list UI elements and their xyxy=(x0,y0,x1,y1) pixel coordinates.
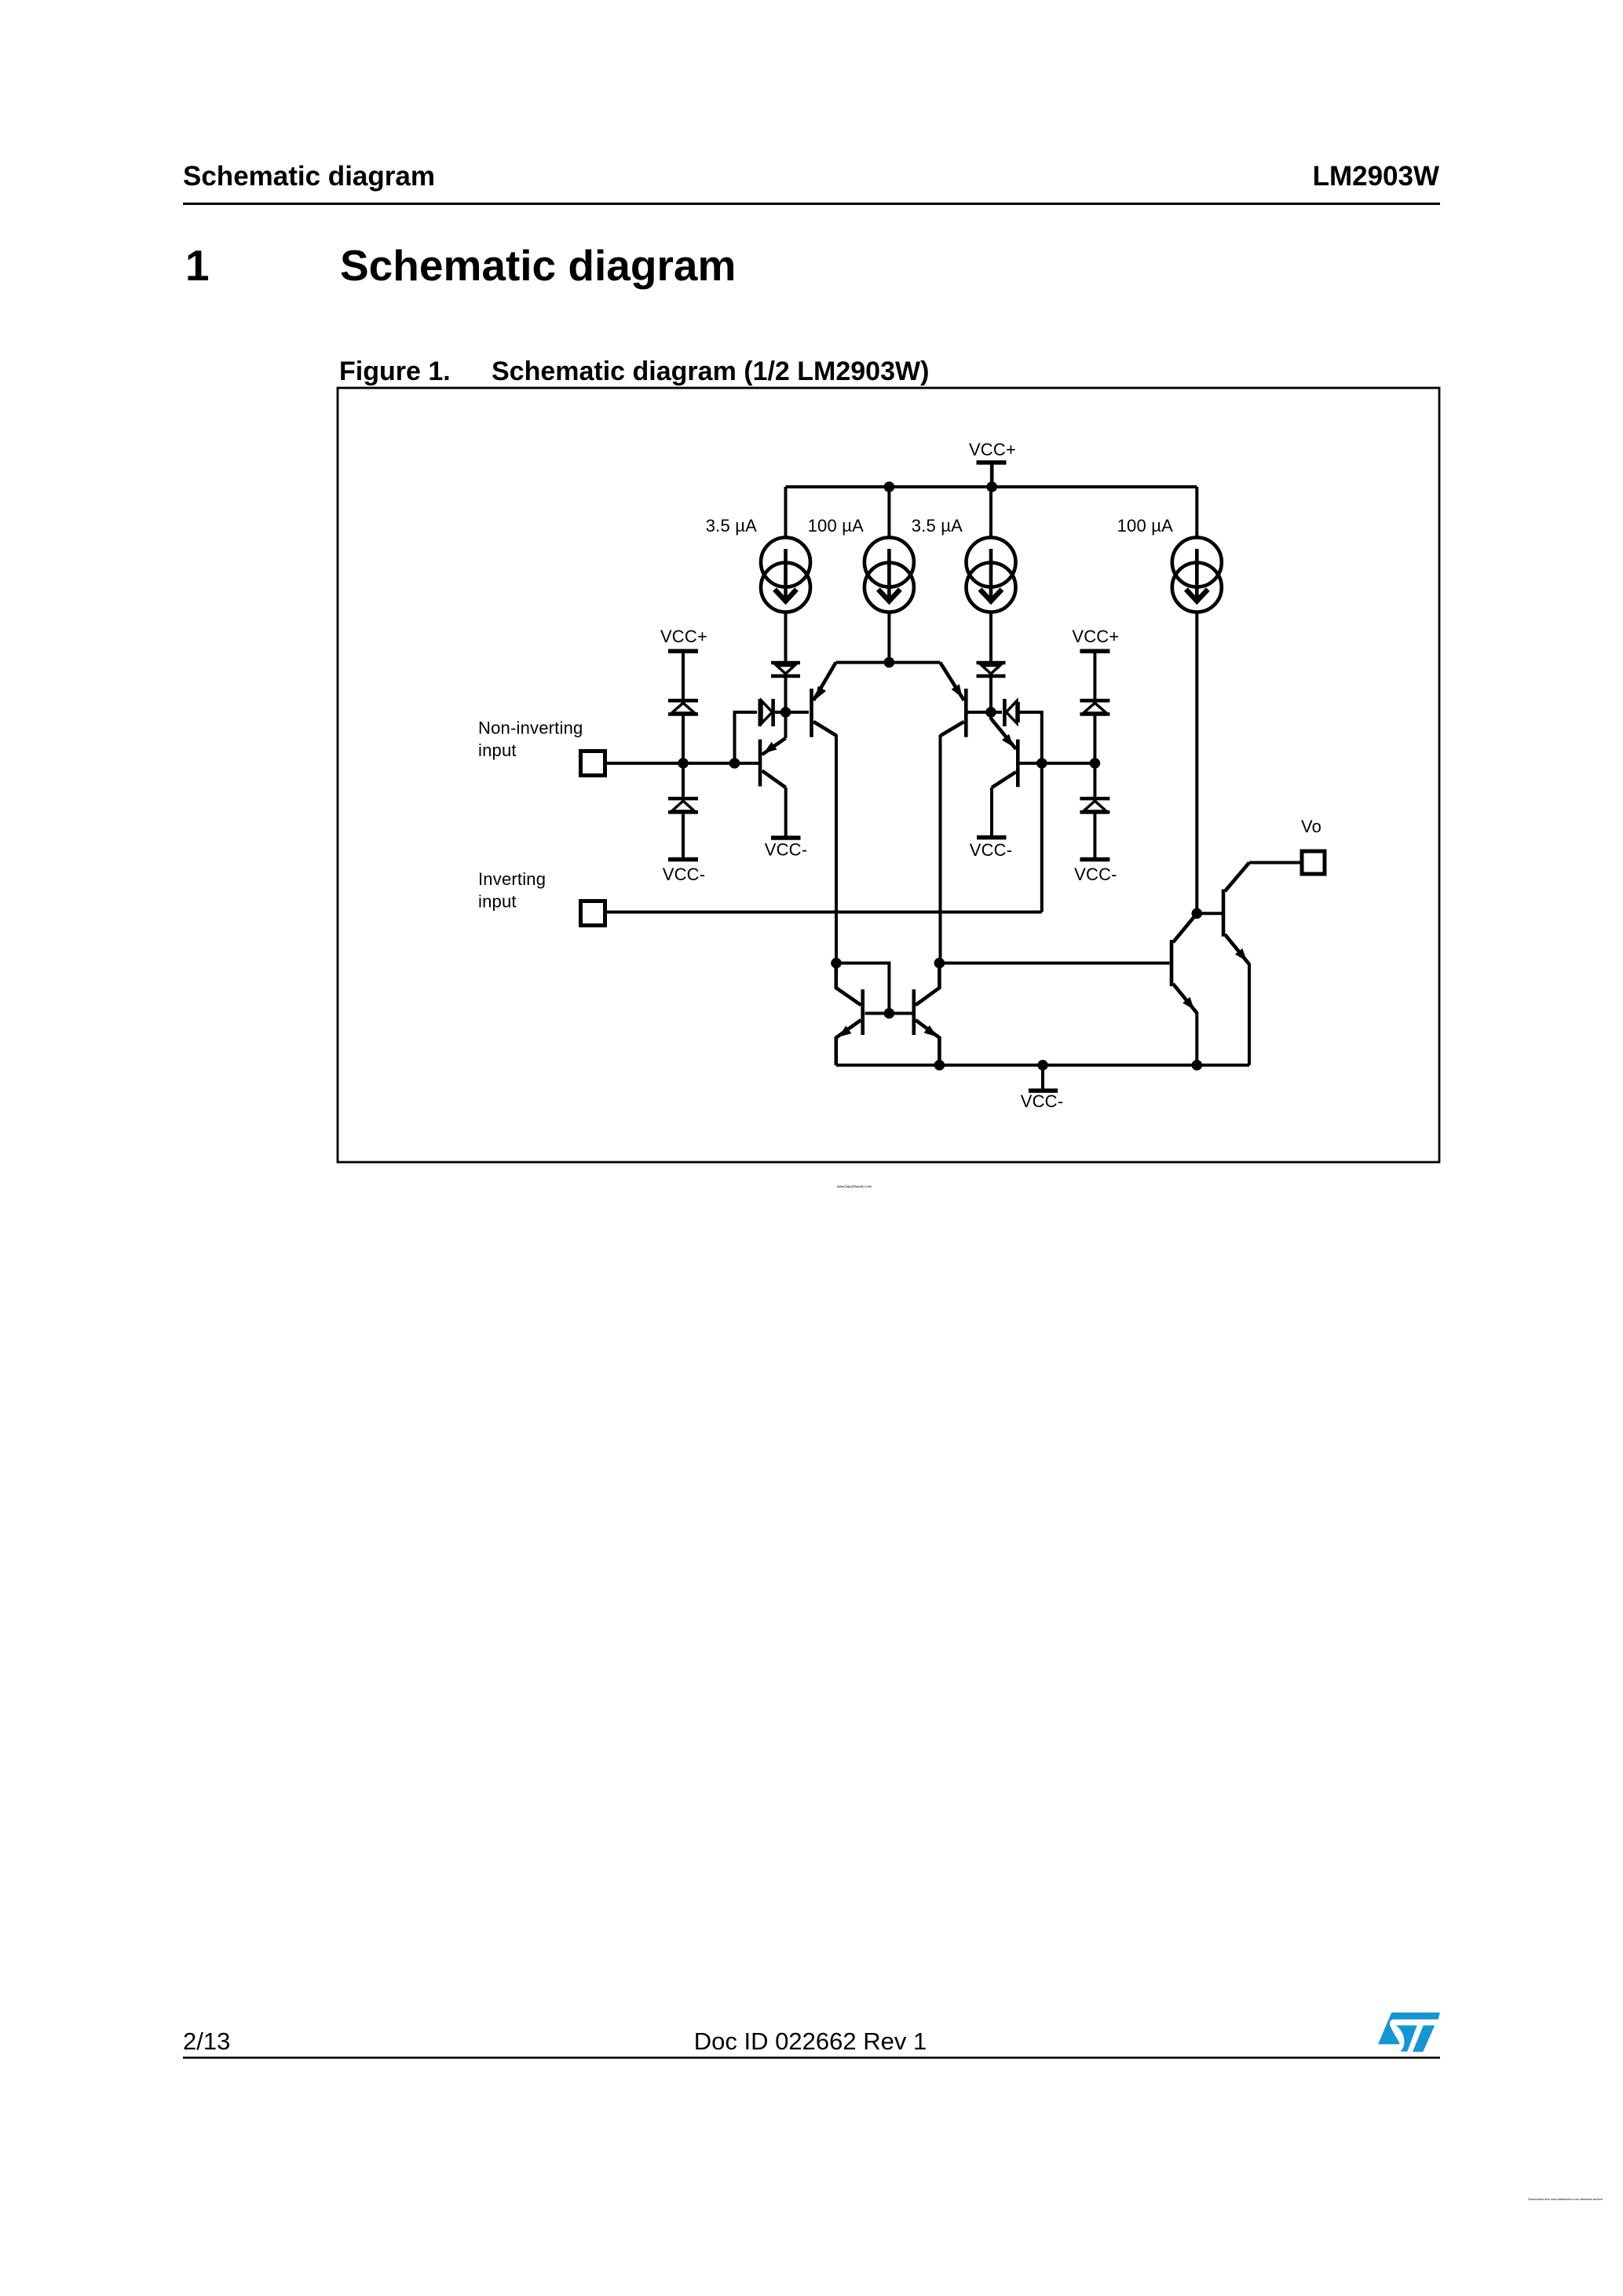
wire inverting branch down xyxy=(1019,712,1042,912)
svg-text:Figure 1.: Figure 1. xyxy=(339,356,451,386)
terminal pad inverting input xyxy=(581,901,605,926)
junction I4 / Q7 collector / Q8 base xyxy=(1192,909,1203,919)
wire Q4 base line xyxy=(1020,762,1095,765)
svg-text:VCC-: VCC- xyxy=(1021,1091,1064,1111)
wire Q3 base to node B xyxy=(967,711,991,714)
ground symbol VCC- xyxy=(1029,1066,1058,1091)
svg-text:Schematic diagram: Schematic diagram xyxy=(340,241,736,290)
wire mirror diode connection xyxy=(836,963,889,1014)
header rule xyxy=(183,203,1440,205)
VCC+ supply symbol (left column) xyxy=(668,651,698,699)
VCC- supply symbol (Q4 collector) xyxy=(977,835,1007,840)
node VCC- label (Q4 collector) xyxy=(970,840,1013,860)
watermark gray text bottom right xyxy=(1528,2198,1603,2201)
junction non-inv line / clamp branch xyxy=(729,758,740,769)
value label 3.5 uA (I3) xyxy=(912,516,963,536)
svg-text:Inverting: Inverting xyxy=(478,869,546,889)
junction rail/Q7 emitter xyxy=(1192,1060,1203,1071)
wire clamp branch up xyxy=(735,712,758,763)
svg-text:Vo: Vo xyxy=(1301,817,1321,836)
svg-text:VCC+: VCC+ xyxy=(660,627,707,646)
diode D1 (below I1, cathode down) xyxy=(771,663,800,708)
current source I2 100uA xyxy=(865,487,914,663)
svg-text:www.DataSheet4U.com: www.DataSheet4U.com xyxy=(837,1185,872,1189)
junction mirror base node xyxy=(884,1008,895,1019)
diode D5 (input clamp, anode left) xyxy=(760,699,782,726)
figure caption xyxy=(492,356,929,386)
page header left title xyxy=(183,161,435,192)
svg-text:3.5 µA: 3.5 µA xyxy=(912,516,963,536)
svg-text:Downloaded from www.datasheet4: Downloaded from www.datasheet4u.com data… xyxy=(1528,2198,1603,2201)
watermark small gray text below figure xyxy=(837,1185,872,1189)
footer rule xyxy=(183,2057,1440,2059)
svg-text:100 µA: 100 µA xyxy=(1117,516,1173,536)
diode D7 (right column upper, cathode up) xyxy=(1080,700,1109,762)
diode D6 (input clamp, anode right) xyxy=(991,699,1018,726)
svg-text:1: 1 xyxy=(185,241,210,290)
footer page number xyxy=(183,2027,230,2055)
current source I3 3.5uA xyxy=(967,487,1016,661)
svg-text:100 µA: 100 µA xyxy=(808,516,864,536)
svg-text:2/13: 2/13 xyxy=(183,2027,230,2055)
svg-text:VCC+: VCC+ xyxy=(969,440,1016,459)
diode D4 (left column lower, cathode up) xyxy=(668,765,698,857)
transistor Q3 (right PNP of mirror pair) xyxy=(940,663,966,963)
junction mirror input node xyxy=(831,958,842,969)
VCC+ supply symbol (right column) xyxy=(1080,651,1109,699)
footer doc id xyxy=(694,2027,927,2055)
junction tail/I2 xyxy=(884,657,895,668)
page header right part number xyxy=(1313,161,1439,192)
node A junction (I1/D1, D5 cathode, Q2 base, Q1 emitter) xyxy=(780,707,791,718)
value label 100 uA (I4) xyxy=(1117,516,1173,536)
wire Q8 collector to output pad xyxy=(1249,861,1300,865)
transistor Q7 (output driver NPN) xyxy=(1172,913,1197,1065)
VCC- supply symbol (right column) xyxy=(1080,857,1109,862)
value label 3.5 uA (I1) xyxy=(706,516,757,536)
node VCC+ label (right clamp column) xyxy=(1072,627,1119,646)
VCC- supply symbol (left column) xyxy=(668,857,698,862)
wire mirror output to Q7 base xyxy=(939,962,1169,965)
diode D8 (right column lower, cathode up) xyxy=(1080,765,1109,857)
node VCC- label (left column) xyxy=(663,865,706,884)
VCC- supply symbol (Q1 collector) xyxy=(771,835,801,840)
node label Inverting input xyxy=(478,869,546,912)
node VCC- label (Q1 collector) xyxy=(765,840,808,860)
transistor Q8 (output NPN) xyxy=(1223,863,1249,1066)
svg-text:VCC-: VCC- xyxy=(765,840,808,860)
wire top supply rail xyxy=(786,485,1197,488)
section heading xyxy=(340,241,736,290)
node label Non-inverting input xyxy=(478,718,583,761)
terminal pad non-inverting input xyxy=(581,751,605,776)
figure frame xyxy=(338,388,1439,1162)
value label 100 uA (I2) xyxy=(808,516,864,536)
terminal pad Vo xyxy=(1302,851,1325,874)
wire bottom rail xyxy=(836,1064,1249,1067)
wire inverting input line xyxy=(607,911,1042,914)
svg-text:3.5 µA: 3.5 µA xyxy=(706,516,757,536)
node VCC+ label (top) xyxy=(969,440,1016,459)
junction rail/Q6 emitter xyxy=(934,1060,945,1071)
junction D3/D4 with non-inverting input wire xyxy=(678,758,689,769)
ST logo xyxy=(1378,2013,1440,2052)
junction rail/CS2 xyxy=(884,481,895,492)
transistor Q4 (right input PNP) xyxy=(991,712,1018,836)
wire node A to Q2 base xyxy=(786,711,810,714)
svg-text:VCC-: VCC- xyxy=(663,865,706,884)
figure label xyxy=(339,356,451,386)
svg-text:input: input xyxy=(478,892,517,912)
svg-text:VCC-: VCC- xyxy=(1074,865,1117,884)
node VCC+ label (left clamp column) xyxy=(660,627,707,646)
svg-text:VCC-: VCC- xyxy=(970,840,1013,860)
current source I4 100uA xyxy=(1172,487,1222,913)
node VCC- label (ground) xyxy=(1021,1091,1064,1111)
transistor Q2 (left PNP of mirror pair) xyxy=(812,663,837,963)
svg-text:LM2903W: LM2903W xyxy=(1313,161,1439,192)
transistor Q6 (mirror NPN output) xyxy=(914,963,940,1066)
section number 1 xyxy=(185,241,210,290)
junction mirror output node xyxy=(934,958,945,969)
svg-text:Schematic diagram (1/2 LM2903W: Schematic diagram (1/2 LM2903W) xyxy=(492,356,929,386)
svg-text:Non-inverting: Non-inverting xyxy=(478,718,583,738)
svg-text:Doc ID 022662 Rev 1: Doc ID 022662 Rev 1 xyxy=(694,2027,927,2055)
svg-text:VCC+: VCC+ xyxy=(1072,627,1119,646)
svg-text:Schematic diagram: Schematic diagram xyxy=(183,161,435,192)
node B junction (I3/D2, Q3 base, D6 anode, Q4 emitter) xyxy=(985,707,996,718)
diode D2 (below I3, cathode down) xyxy=(977,663,1006,708)
junction Q4 base / inverting branch xyxy=(1036,758,1047,769)
junction rail/ground stub xyxy=(1037,1060,1048,1071)
transistor Q5 (mirror NPN diode-connected) xyxy=(836,963,863,1066)
wire mirror base line xyxy=(865,1012,913,1015)
VCC+ supply symbol (top) xyxy=(977,462,1007,487)
junction Q4 base / right clamp column xyxy=(1090,758,1101,769)
junction rail/VCC+/CS3 xyxy=(986,481,997,492)
current source I1 3.5uA xyxy=(761,487,810,661)
node VCC- label (right column) xyxy=(1074,865,1117,884)
wire emitter tail rail xyxy=(836,661,941,664)
svg-text:input: input xyxy=(478,740,517,760)
diode D3 (left column upper, cathode up) xyxy=(668,700,698,762)
wire Q8 base xyxy=(1197,912,1222,915)
transistor Q1 (left input PNP) xyxy=(760,712,786,836)
wire non-inverting input line xyxy=(607,762,758,765)
node label Vo xyxy=(1301,817,1321,836)
